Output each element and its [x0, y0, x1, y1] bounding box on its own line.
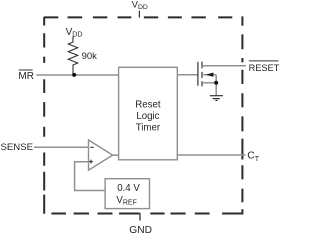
- op-amp comparator: [89, 140, 113, 170]
- voltage reference block 0.4V VREF: [105, 179, 149, 209]
- wire MR to logic block: [36, 74, 118, 76]
- IC boundary (dashed) right: [241, 16, 243, 214]
- wire CT from logic block to pin: [177, 154, 245, 156]
- transistor Q1 source stub: [202, 82, 216, 84]
- svg-text:Logic: Logic: [136, 111, 159, 122]
- IC boundary (dashed) bottom: [51, 213, 241, 215]
- wire SENSE to comparator inverting input: [34, 146, 89, 148]
- wire body/source to ground: [215, 75, 217, 96]
- junction dot source/body: [214, 81, 218, 85]
- Reset Logic Timer block: [119, 67, 178, 160]
- wire VREF to comparator non-inverting input: [75, 162, 106, 191]
- svg-text:GND: GND: [129, 225, 152, 233]
- svg-text:Reset: Reset: [135, 99, 161, 110]
- transistor Q1 gate bar: [197, 62, 199, 86]
- svg-text:RESET: RESET: [249, 63, 280, 73]
- svg-text:MR: MR: [18, 71, 34, 82]
- ground symbol: [210, 95, 223, 97]
- wire comparator output to logic block: [113, 154, 119, 156]
- comparator plus sign: [89, 161, 93, 163]
- transistor Q1 channel segments: [201, 62, 203, 69]
- comparator minus sign: [90, 146, 93, 148]
- resistor 90k: [68, 37, 77, 75]
- svg-text:90k: 90k: [82, 51, 98, 62]
- wire drain to RESET pin: [202, 65, 246, 67]
- svg-text:SENSE: SENSE: [1, 142, 34, 153]
- IC boundary (dashed) left: [43, 17, 45, 214]
- transistor Q1 body stub with arrow: [202, 74, 216, 76]
- pin VDD tick: [138, 11, 140, 18]
- junction dot at resistor/MR node: [72, 73, 76, 77]
- wire logic block to MOSFET gate: [177, 74, 198, 76]
- IC boundary (dashed) top: [44, 16, 232, 18]
- svg-text:0.4 V: 0.4 V: [117, 183, 140, 194]
- pin GND tick: [139, 213, 141, 221]
- svg-text:Timer: Timer: [136, 123, 161, 134]
